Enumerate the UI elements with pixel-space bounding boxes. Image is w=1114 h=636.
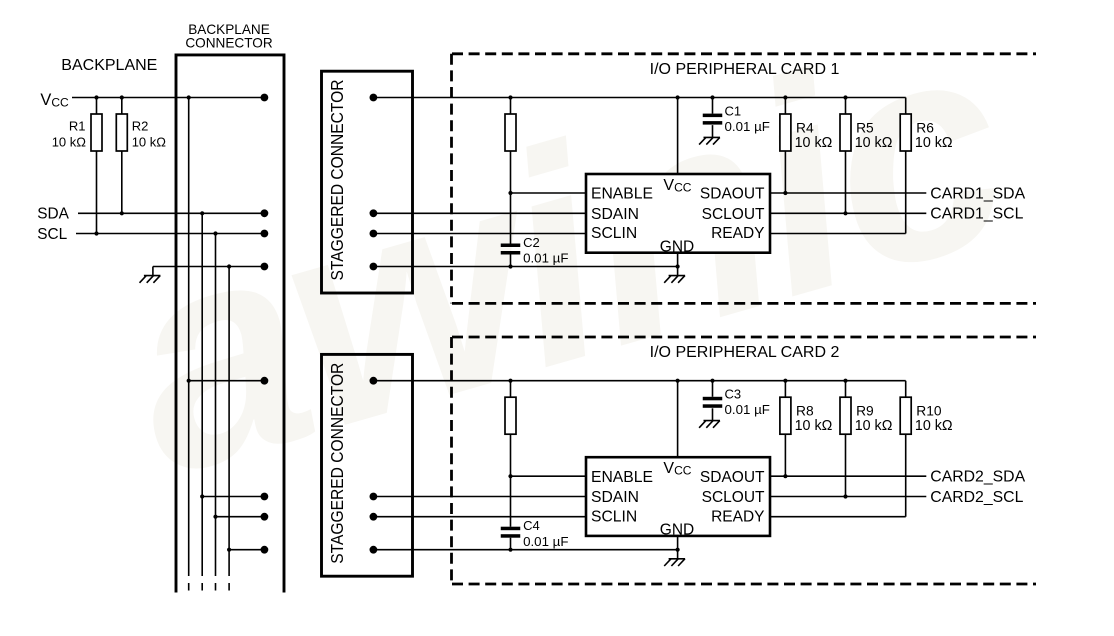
svg-text:C1: C1 [725, 103, 742, 118]
svg-text:VCC: VCC [663, 177, 691, 194]
svg-text:R10: R10 [916, 404, 942, 419]
svg-text:C2: C2 [523, 235, 540, 250]
svg-text:SCL: SCL [37, 226, 67, 243]
svg-text:R1: R1 [69, 119, 86, 134]
svg-text:R4: R4 [796, 120, 814, 135]
svg-text:READY: READY [711, 508, 764, 525]
svg-text:GND: GND [660, 238, 694, 255]
svg-text:CARD1_SCL: CARD1_SCL [930, 206, 1023, 223]
svg-text:10 kΩ: 10 kΩ [915, 418, 953, 434]
svg-text:10 kΩ: 10 kΩ [795, 418, 833, 434]
svg-text:R2: R2 [132, 119, 149, 134]
svg-text:10 kΩ: 10 kΩ [915, 135, 953, 151]
svg-text:SDAOUT: SDAOUT [700, 186, 765, 203]
svg-text:SCLOUT: SCLOUT [702, 489, 765, 506]
svg-text:GND: GND [660, 522, 694, 539]
svg-text:10 kΩ: 10 kΩ [132, 134, 167, 149]
svg-text:SCLIN: SCLIN [591, 225, 637, 242]
svg-text:C3: C3 [725, 387, 742, 402]
svg-text:SDAOUT: SDAOUT [700, 469, 765, 486]
svg-text:ENABLE: ENABLE [591, 469, 653, 486]
svg-text:CARD2_SDA: CARD2_SDA [930, 469, 1025, 486]
svg-text:10 kΩ: 10 kΩ [52, 134, 87, 149]
svg-text:STAGGERED CONNECTOR: STAGGERED CONNECTOR [327, 363, 347, 564]
svg-text:SCLIN: SCLIN [591, 508, 637, 525]
svg-text:0.01 µF: 0.01 µF [523, 251, 568, 266]
svg-text:SDA: SDA [37, 206, 69, 223]
svg-text:I/O PERIPHERAL CARD 1: I/O PERIPHERAL CARD 1 [650, 61, 840, 78]
svg-text:10 kΩ: 10 kΩ [795, 135, 833, 151]
svg-text:CONNECTOR: CONNECTOR [185, 36, 273, 51]
svg-text:ENABLE: ENABLE [591, 186, 653, 203]
svg-text:SCLOUT: SCLOUT [702, 206, 765, 223]
svg-text:C4: C4 [523, 518, 540, 533]
svg-text:R8: R8 [796, 404, 814, 419]
svg-text:READY: READY [711, 225, 764, 242]
svg-text:CARD2_SCL: CARD2_SCL [930, 489, 1023, 506]
svg-text:CARD1_SDA: CARD1_SDA [930, 185, 1025, 202]
svg-text:0.01 µF: 0.01 µF [725, 402, 770, 417]
svg-text:0.01 µF: 0.01 µF [725, 119, 770, 134]
svg-text:10 kΩ: 10 kΩ [855, 418, 893, 434]
svg-text:STAGGERED CONNECTOR: STAGGERED CONNECTOR [327, 80, 347, 281]
svg-text:0.01 µF: 0.01 µF [523, 534, 568, 549]
svg-text:VCC: VCC [663, 460, 691, 477]
svg-text:10 kΩ: 10 kΩ [855, 135, 893, 151]
svg-text:R9: R9 [856, 404, 874, 419]
svg-text:SDAIN: SDAIN [591, 206, 639, 223]
svg-text:R5: R5 [856, 120, 874, 135]
svg-text:R6: R6 [916, 120, 934, 135]
svg-text:SDAIN: SDAIN [591, 489, 639, 506]
svg-text:I/O PERIPHERAL CARD 2: I/O PERIPHERAL CARD 2 [650, 344, 840, 361]
svg-text:BACKPLANE: BACKPLANE [61, 57, 157, 74]
